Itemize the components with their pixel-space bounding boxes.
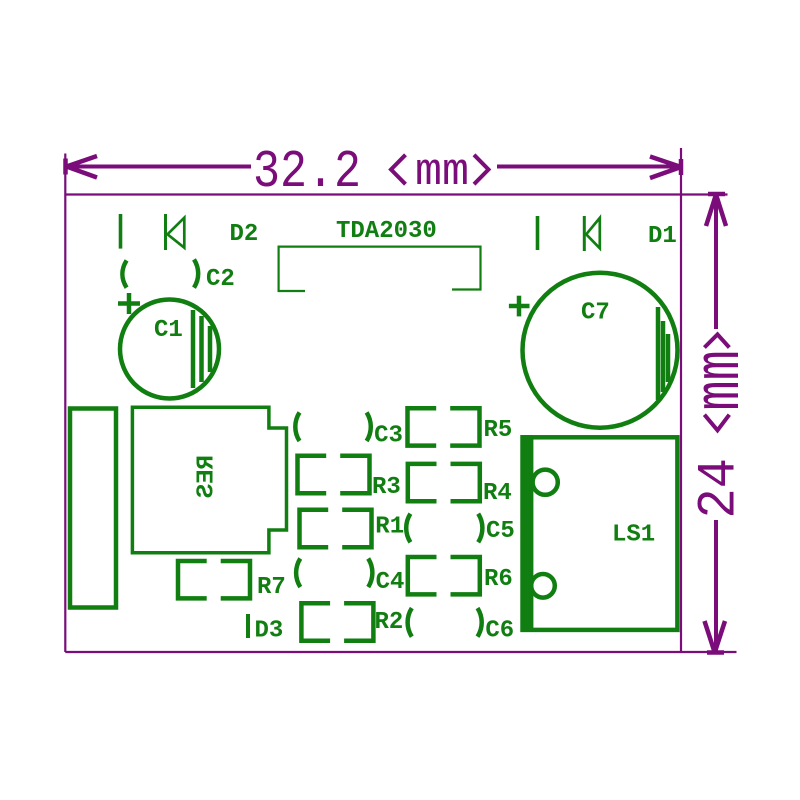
resistor R7: [178, 561, 250, 598]
right arrowhead: [650, 157, 681, 179]
diode D2: [166, 214, 185, 250]
svg-text:C6: C6: [485, 618, 514, 645]
svg-text:D1: D1: [648, 223, 677, 250]
resistor R6: [408, 557, 480, 594]
svg-text:D2: D2: [230, 221, 259, 248]
svg-text:C2: C2: [206, 266, 235, 293]
IC TDA2030 outline: [279, 247, 481, 291]
capacitor C1 plus mark: [118, 293, 140, 314]
svg-text:24: 24: [689, 458, 750, 518]
svg-text:R3: R3: [372, 474, 401, 501]
capacitor C6: [408, 608, 482, 637]
svg-text:C5: C5: [486, 518, 515, 545]
speaker LS1 pin 2: [531, 574, 555, 598]
pad bar top-right: [536, 216, 540, 250]
svg-text:R6: R6: [484, 566, 513, 593]
vertical dimension line 24mm: [714, 195, 718, 652]
svg-text:mm: mm: [686, 350, 758, 410]
board outline right edge with extension: [680, 148, 682, 652]
board outline top edge with extension: [65, 193, 727, 195]
svg-text:R4: R4: [483, 480, 512, 507]
svg-text:RES: RES: [194, 455, 221, 498]
svg-text:C7: C7: [581, 300, 610, 327]
speaker LS1 pin 1: [533, 470, 558, 495]
pad bar top-left: [119, 214, 123, 249]
capacitor C5: [406, 514, 482, 543]
connector pad strip left: [70, 409, 116, 608]
speaker LS1: [523, 437, 678, 630]
resistor R4: [408, 464, 480, 501]
capacitor C2: [122, 259, 198, 287]
board outline bottom edge with extension: [65, 651, 736, 653]
resistor RES power block: [132, 407, 286, 552]
dimension text 24 (mm) vertical: [686, 334, 758, 518]
svg-text:mm: mm: [415, 147, 469, 198]
svg-text:R1: R1: [375, 513, 404, 540]
svg-text:C4: C4: [376, 569, 405, 596]
left arrowhead: [66, 156, 98, 178]
left angle bracket: [391, 155, 406, 184]
resistor R3: [298, 456, 370, 493]
svg-text:C3: C3: [374, 423, 403, 450]
speaker LS1 bar: [520, 435, 533, 632]
svg-text:R2: R2: [375, 609, 404, 636]
svg-text:D3: D3: [255, 618, 284, 645]
svg-text:LS1: LS1: [612, 522, 655, 549]
down arrowhead: [705, 621, 726, 653]
capacitor C7: [523, 273, 678, 428]
capacitor C7 plus mark: [509, 296, 530, 317]
board outline left edge with extension: [64, 154, 66, 653]
up arrowhead: [706, 194, 726, 226]
capacitor C3: [295, 412, 371, 441]
capacitor C4: [296, 559, 372, 588]
diode D3 pad bar: [246, 614, 250, 638]
resistor R5: [408, 408, 480, 445]
svg-text:C1: C1: [154, 317, 183, 344]
svg-text:R5: R5: [484, 417, 513, 444]
resistor R1: [300, 510, 372, 547]
capacitor C1: [120, 300, 219, 399]
horizontal dimension line 32.2mm: [66, 165, 681, 169]
right angle bracket: [474, 155, 489, 184]
diode D1: [584, 216, 600, 251]
dimension text 32.2 (mm): [253, 142, 469, 202]
svg-text:TDA2030: TDA2030: [336, 218, 437, 245]
svg-text:R7: R7: [257, 574, 286, 601]
resistor R2: [301, 603, 373, 640]
svg-text:32.2: 32.2: [253, 142, 361, 202]
